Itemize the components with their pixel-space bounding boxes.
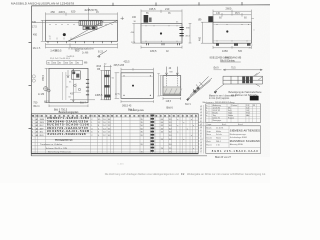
svg-text:Name: Name [216, 138, 221, 140]
big table lower-left entries [40, 138, 73, 153]
svg-text:d4: d4 [200, 115, 202, 117]
svg-text:MASSBILD SCHRANK: MASSBILD SCHRANK [230, 139, 260, 143]
view V2 outline [49, 68, 88, 102]
mid band boxed dimension cells [47, 61, 83, 65]
svg-text:B 23: B 23 [98, 50, 104, 53]
svg-text:3WX: 3WX [40, 122, 45, 124]
frame top border [32, 5, 271, 6]
svg-text:Werk: Werk [206, 140, 210, 143]
frame left zone ticks [29, 43, 32, 129]
view V2 inner rail lines [63, 72, 66, 100]
svg-text:Abzweig 630A: Abzweig 630A [230, 143, 243, 146]
frame top zone ticks [113, 2, 242, 6]
svg-text:160: 160 [132, 16, 137, 19]
big table right dark value column [151, 115, 155, 152]
svg-text:1:10: 1:10 [216, 144, 220, 146]
C2 left dimension [160, 76, 163, 96]
big table outline [31, 114, 198, 154]
svg-text:35,5 2x17,5=35 60,5: 35,5 2x17,5=35 60,5 [50, 58, 71, 60]
svg-text:m3: m3 [200, 139, 202, 141]
svg-text:3NP: 3NP [40, 128, 45, 130]
svg-text:Masst.: Masst. [206, 143, 212, 146]
view V1 top dimension line [46, 8, 118, 20]
view A corner latch dark [144, 15, 152, 23]
view B corner latch dark [208, 16, 213, 22]
svg-text:8GB1 235-1BA00-0AA0: 8GB1 235-1BA00-0AA0 [212, 149, 259, 153]
view V1 bottom dimension lines [46, 43, 118, 48]
revision table [206, 104, 261, 123]
svg-text:2600: 2600 [226, 6, 232, 10]
svg-text:Turrahmen m. Zubehor: Turrahmen m. Zubehor [40, 143, 63, 146]
view B outline [213, 22, 251, 43]
svg-text:r7: r7 [200, 150, 202, 153]
svg-text:8US1251-5DM00/998: 8US1251-5DM00/998 [48, 132, 86, 136]
svg-text:505: 505 [238, 50, 243, 53]
svg-text:o5: o5 [200, 145, 202, 147]
svg-text:Niederspannungs-: Niederspannungs- [230, 134, 247, 136]
svg-text:795,5: 795,5 [42, 74, 45, 81]
svg-text:Befestigung der Sammelschiene: Befestigung der Sammelschiene [229, 91, 263, 94]
svg-text:345,5 205: 345,5 205 [114, 64, 125, 67]
svg-text:210: 210 [165, 7, 170, 11]
view V2 lower detail circles [74, 84, 76, 86]
frame bottom line [31, 155, 207, 157]
svg-text:Datum: Datum [232, 104, 238, 107]
svg-text:Bild 6: Bild 6 [167, 106, 174, 109]
svg-text:435,5: 435,5 [149, 7, 156, 11]
svg-text:e5: e5 [200, 118, 202, 120]
svg-text:Werknorm n. DIN 41488 Bl.2 Aus: Werknorm n. DIN 41488 Bl.2 Ausg. [203, 101, 236, 104]
svg-text:118,5: 118,5 [166, 101, 172, 103]
svg-text:l2: l2 [200, 136, 201, 138]
narrow strip columns [198, 105, 206, 154]
big table horizontal lines [31, 117, 198, 152]
svg-text:Gepr.: Gepr. [206, 130, 211, 133]
svg-text:Masse in mm / dimensions: Masse in mm / dimensions [209, 95, 237, 97]
svg-text:SIEMENS AKTIENGES: SIEMENS AKTIENGES [230, 128, 260, 132]
big table header band speckle [32, 115, 197, 117]
interim band [198, 123, 260, 126]
view A bottom dimension [141, 46, 182, 49]
svg-text:k1: k1 [200, 133, 202, 135]
svg-text:Bild 7: Bild 7 [80, 102, 86, 104]
svg-text:WB 4: WB 4 [216, 141, 221, 143]
svg-text:M12: M12 [44, 102, 49, 104]
left margin hole circles [32, 75, 35, 78]
svg-text:425,5: 425,5 [124, 60, 131, 63]
svg-text:1305,5: 1305,5 [95, 94, 103, 97]
svg-text:Schulz: Schulz [216, 134, 222, 136]
svg-text:430,5: 430,5 [59, 10, 66, 14]
svg-text:F2: F2 [181, 172, 185, 176]
svg-text:Bild 9: Bild 9 [185, 104, 191, 106]
svg-text:Ger: Ger [39, 115, 43, 118]
narrow strip tiny rows [200, 106, 202, 153]
view V1 connector cluster [79, 21, 102, 30]
svg-text:2x Ø3,5: 2x Ø3,5 [67, 56, 75, 58]
svg-text:70,5: 70,5 [231, 67, 236, 69]
black logo plate [250, 96, 259, 101]
view V1 inner top line [46, 22, 118, 24]
dimension between A and B [189, 24, 192, 44]
view A outline [141, 24, 182, 44]
profile box C2 [163, 76, 181, 96]
big table bottom bold line [31, 153, 198, 155]
svg-text:25: 25 [253, 105, 255, 107]
view V1 left leader line [32, 22, 46, 24]
svg-text:n. 60 Befestigungslocher: n. 60 Befestigungslocher [69, 47, 95, 50]
svg-text:8UC: 8UC [40, 125, 45, 127]
svg-text:Montageplatte kpl.: Montageplatte kpl. [55, 138, 73, 141]
title block personnel rows [206, 129, 229, 143]
title block [206, 126, 261, 154]
view V3 left dimension [115, 73, 120, 99]
svg-text:h8: h8 [200, 127, 202, 129]
leader arrow [67, 70, 69, 78]
svg-text:Muller: Muller [216, 130, 222, 133]
svg-text:460: 460 [199, 36, 202, 41]
view B inner lines [213, 25, 251, 41]
svg-text:Norm: Norm [206, 133, 211, 136]
scan haze inside frame [31, 4, 270, 157]
svg-text:180,5: 180,5 [150, 49, 157, 53]
view B left dimension [201, 22, 213, 43]
view V1 dark knob [63, 33, 66, 36]
frame left border [30, 6, 32, 156]
C2 top arrows [166, 67, 179, 76]
view A left dimension [132, 24, 141, 44]
svg-text:n. 415: n. 415 [118, 164, 125, 166]
svg-text:620: 620 [71, 9, 76, 13]
svg-text:Normgepr.: Normgepr. [213, 119, 222, 122]
svg-text:Zusatzgerate: Zusatzgerate [130, 109, 145, 112]
view A center dot [160, 32, 162, 34]
svg-text:1050: 1050 [222, 49, 228, 53]
svg-text:Mst 1:5: Mst 1:5 [33, 47, 41, 50]
view A inner lines [141, 26, 182, 41]
svg-text:2x M6: 2x M6 [82, 53, 89, 55]
svg-text:Blatt 23 von 27: Blatt 23 von 27 [215, 156, 232, 159]
rail C1 top dimension [104, 65, 112, 70]
view V2 right edge clamp marks [86, 80, 89, 95]
svg-text:c3: c3 [200, 112, 202, 114]
svg-text:Krause: Krause [228, 116, 234, 119]
bracket body [223, 76, 263, 84]
svg-text:Ød 9: Ød 9 [214, 68, 220, 70]
rail detail C1 [105, 70, 111, 99]
svg-text:Ø13: Ø13 [97, 65, 102, 68]
C2 inner dashed studs [167, 76, 178, 87]
svg-text:n4: n4 [200, 142, 202, 144]
svg-text:450: 450 [33, 33, 38, 36]
view B center dot [226, 30, 228, 32]
big table vertical lines [35, 114, 195, 154]
svg-text:e: e [206, 115, 207, 117]
bracket left diagonal leader [214, 84, 224, 93]
view B bottom dimension [213, 46, 251, 49]
view V3 center dot [132, 85, 134, 87]
svg-text:Schaltanlage 8GB1: Schaltanlage 8GB1 [230, 136, 248, 139]
big table dense stamp text block [47, 116, 89, 136]
svg-text:b2: b2 [200, 109, 202, 111]
C2 mid line and base band [163, 86, 181, 88]
svg-text:i9: i9 [200, 130, 201, 132]
svg-text:Bemerkung: Einbausatz: Bemerkung: Einbausatz [48, 150, 71, 153]
view V2 centre dimension line [72, 69, 74, 102]
svg-text:in mm (inch) approx.: in mm (inch) approx. [209, 97, 230, 100]
rail C1 left dimension [100, 70, 104, 99]
svg-text:Bearb.: Bearb. [206, 126, 212, 129]
view B top dimensions [213, 10, 251, 22]
svg-text:47,5: 47,5 [115, 94, 120, 96]
view V1 bottom feet ticks [48, 41, 112, 43]
svg-text:Bz: Bz [36, 116, 38, 118]
view V1 interior bottom marks [50, 38, 71, 40]
svg-text:365,5 45: 365,5 45 [122, 104, 132, 107]
big table right section speckle [141, 116, 196, 154]
svg-text:MASSBILD ANSCHLUSSPLAN-M 12345: MASSBILD ANSCHLUSSPLAN-M 12345678 [11, 2, 74, 6]
svg-text:2x Ø9: 2x Ø9 [38, 94, 45, 96]
view V1 interior top stud dots [50, 23, 113, 26]
left detail circles [44, 87, 48, 91]
view V2 clamp detail box [72, 71, 81, 79]
svg-text:Schiene 35x15 n. DIN: Schiene 35x15 n. DIN [46, 148, 68, 150]
svg-text:95,5: 95,5 [235, 12, 240, 15]
dimension between V3 and C2 [157, 74, 160, 97]
svg-text:Datum: Datum [206, 137, 212, 140]
view V3 top dimension [121, 68, 154, 73]
view V3 bottom dimensions [121, 100, 154, 103]
view A bottom feet [147, 43, 180, 45]
view V3 outline [121, 73, 154, 99]
svg-text:2x45Ø: 2x45Ø [50, 50, 57, 52]
svg-text:Bild 4: Bild 4 [34, 105, 41, 108]
C2 bottom dimension [163, 97, 181, 100]
svg-text:21.10.91: 21.10.91 [216, 127, 223, 129]
bracket dark fitting [242, 77, 253, 84]
view B bottom feet [216, 43, 250, 46]
view A right hinge marks [180, 28, 184, 36]
iso sketch diagonals [187, 77, 213, 101]
svg-text:a1: a1 [200, 106, 202, 108]
rail C1 clamp marks [104, 75, 110, 98]
svg-text:p6: p6 [200, 148, 202, 150]
svg-text:Die Zeichnung und Unterlagen b: Die Zeichnung und Unterlagen bleiben uns… [105, 172, 180, 176]
view V2 bottom dimension [49, 104, 88, 107]
view V3 corner dots [123, 75, 151, 96]
svg-text:17,5: 17,5 [32, 26, 37, 29]
svg-text:Abt: Abt [246, 114, 249, 117]
svg-text:Bestuckungsplan: Bestuckungsplan [59, 110, 79, 114]
view V1 outline [46, 20, 118, 41]
svg-text:8US: 8US [40, 135, 45, 137]
view V3 inner margin [121, 75, 154, 77]
view V2 left dimension [45, 68, 49, 102]
big table left columns tiny text [32, 115, 45, 137]
view V1 left dimension [41, 20, 46, 41]
big table mid columns text [91, 115, 113, 137]
svg-text:130: 130 [216, 12, 221, 15]
svg-text:3WN: 3WN [40, 119, 45, 121]
svg-text:Weitergabe an Dritte nur mit u: Weitergabe an Dritte nur mit unserer sch… [187, 172, 266, 176]
view A top dimension [141, 9, 182, 23]
svg-text:250: 250 [51, 10, 56, 14]
view V1 diagonal brace [68, 21, 118, 42]
bracket top dim [223, 69, 262, 71]
